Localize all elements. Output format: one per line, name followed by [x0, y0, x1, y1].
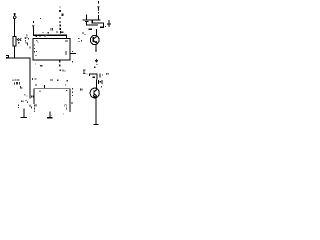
- dot label right of terminal V1: [40, 18, 41, 19]
- terminal V1 lead dash: [33, 21, 34, 23]
- pin stubs under U1 top wire: [35, 35, 47, 37]
- wire node A down to U2 pin: [30, 59, 31, 99]
- dashed net right of U2: [72, 88, 74, 104]
- current arrow label I1: [18, 37, 28, 46]
- IC U1 (upper box): [33, 39, 70, 60]
- plus node marker (net) mid-right: [94, 59, 98, 68]
- battery cell B1 (step symbol): [92, 20, 103, 27]
- transistor Q2: [90, 88, 99, 98]
- side dash of B2: [99, 73, 100, 77]
- value label chevrons next to R1: [17, 38, 21, 41]
- input connector J1 (tab): [6, 55, 9, 57]
- IC U2 (lower box): [34, 88, 71, 112]
- dashed rail (net VDD) top-center: [59, 6, 63, 33]
- supply terminal V+ top-right: [97, 1, 100, 11]
- small bar under B2: [93, 77, 95, 78]
- faint dot below U2: [63, 113, 64, 114]
- battery cell B2 (step symbol): [90, 74, 97, 80]
- tick below U1 output pin: [72, 61, 73, 63]
- pin labels above U2: [32, 78, 68, 82]
- label RL text marks: [98, 73, 109, 84]
- resistor R1 (IEC box symbol): [13, 36, 16, 46]
- pin number labels above U1: [42, 28, 63, 33]
- quote marks left of Q2: [80, 88, 82, 90]
- capacitor C1 lower plate: [85, 21, 89, 22]
- pin labels left of U1: [26, 35, 31, 49]
- tick above U2 right side: [64, 84, 67, 86]
- wire B+ to resistor R1: [14, 19, 15, 37]
- dot label above U1 output pin: [72, 51, 73, 52]
- label under U1: [40, 65, 43, 66]
- pin labels left of U2: [18, 86, 28, 108]
- dashed supply lead wire: [98, 12, 99, 20]
- bottom terminal bar (output): [93, 124, 98, 125]
- transistor Q1: [90, 35, 99, 44]
- wire node A horizontal run: [6, 57, 31, 58]
- wire emitter lead from Q1: [96, 45, 97, 52]
- terminal B+ (open-circle terminal): [13, 16, 16, 19]
- wire collector lead into Q1: [96, 29, 97, 36]
- label dots left of Q1 base: [78, 33, 85, 42]
- plus marker (dagger) at B1: [105, 20, 111, 27]
- dot right of B2: [102, 74, 103, 75]
- value label text (mA): [13, 79, 21, 84]
- supply rail bar wire: [83, 19, 101, 20]
- tick inside U2 lower right: [65, 108, 68, 110]
- plus polarity mark at terminal B+: [13, 13, 16, 16]
- pin stub into U2 left edge: [31, 95, 33, 97]
- tick marks near U2 lower-left pin: [30, 105, 33, 109]
- ground GND1: [20, 108, 27, 118]
- pin stub above U2: [44, 85, 45, 88]
- wire R1 to node A: [14, 46, 15, 58]
- wire C1 lead down and across: [86, 15, 87, 20]
- dashed link U1 to U2 (net): [59, 61, 65, 72]
- wire B2 into Q2 collector: [96, 79, 97, 88]
- tick right of Q2 top: [101, 86, 102, 87]
- U2 internal pin marks: [36, 90, 68, 107]
- junction node blob: [89, 29, 92, 31]
- U1 internal pin marks: [34, 40, 68, 56]
- wire emitter lead Q2 to bottom terminal: [96, 98, 97, 124]
- terminal V1 and wire into U1 top pin: [32, 25, 67, 38]
- U1 right pin stub (output): [70, 53, 76, 54]
- capacitor C2: [83, 69, 88, 74]
- pin marks above U2 corner: [35, 84, 37, 86]
- ground GND2 below U2: [47, 111, 52, 118]
